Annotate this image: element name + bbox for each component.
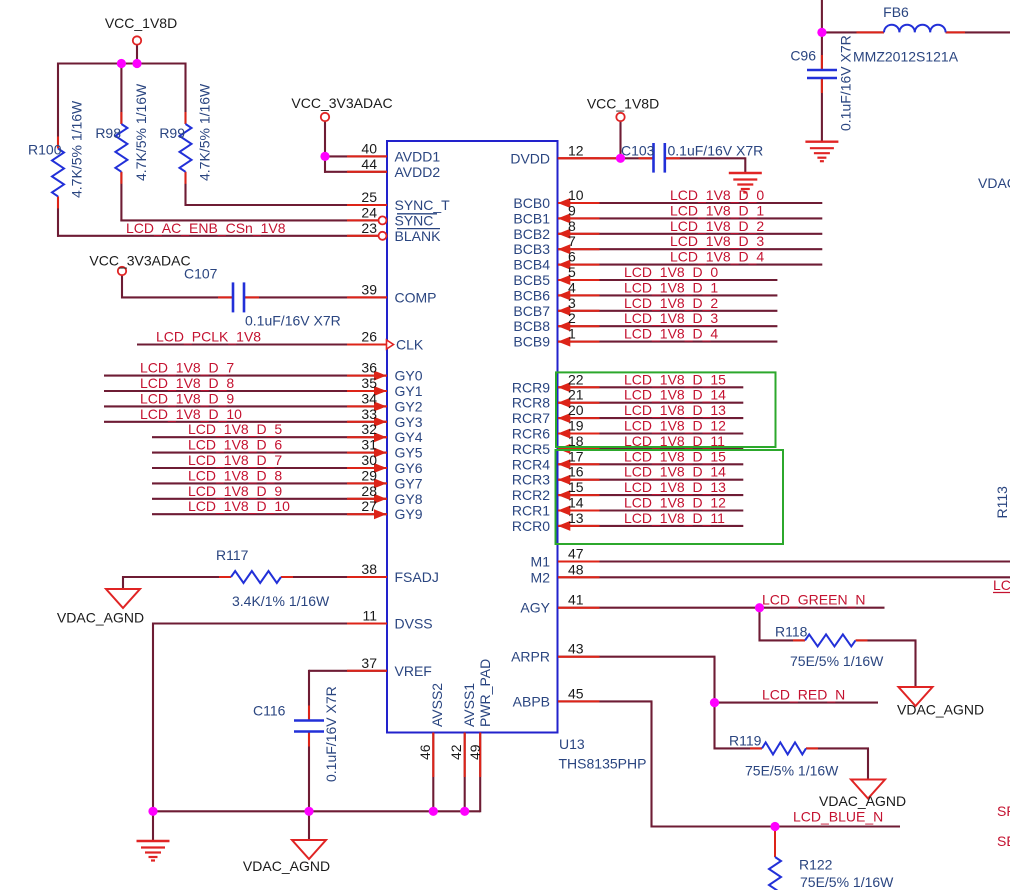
svg-text:38: 38 [361,561,377,577]
resistor R99 [180,124,192,172]
svg-text:16: 16 [568,464,584,480]
svg-text:ABPB: ABPB [513,693,550,709]
svg-text:SYNC_T: SYNC_T [395,197,451,213]
svg-text:LCD_1V8_D_10: LCD_1V8_D_10 [188,498,290,514]
wire LCD_1V8_D_2 to BCB7 [558,310,777,312]
ground VDAC_AGND below R118 [899,687,933,706]
wire LCD_1V8_D_13 to RCR7 [558,417,743,419]
wire LCD_1V8_D_9 to GY8 [152,498,387,500]
svg-text:RCR3: RCR3 [512,472,550,488]
svg-text:GY0: GY0 [395,368,423,384]
svg-text:VDAC_AGND: VDAC_AGND [897,702,984,718]
svg-text:BCB5: BCB5 [513,272,550,288]
svg-text:0.1uF/16V X7R: 0.1uF/16V X7R [668,142,764,158]
svg-text:GY8: GY8 [395,491,423,507]
wire C116 rail to VDAC_AGND [308,811,310,840]
svg-text:VDAC_AGND: VDAC_AGND [819,793,906,809]
svg-text:RCR1: RCR1 [512,503,550,519]
wire AVSS2 pin column [432,733,434,812]
lead FB6 [857,31,885,33]
svg-text:31: 31 [361,437,377,453]
svg-text:30: 30 [361,452,377,468]
green highlight box RCR4-RCR0 [556,450,784,544]
wire LCD_1V8_D_7 to GY0 [104,375,387,377]
svg-text:VDAC_AGND: VDAC_AGND [57,610,144,626]
svg-text:LCD: LCD [993,577,1010,593]
svg-text:LCD_1V8_D_12: LCD_1V8_D_12 [624,495,726,511]
svg-text:LCD_1V8_D_0: LCD_1V8_D_0 [624,264,718,280]
svg-text:LCD_1V8_D_7: LCD_1V8_D_7 [140,360,234,376]
resistor R122 [769,857,781,890]
wire VCC_1V8D rail [58,62,186,64]
svg-text:3.4K/1% 1/16W: 3.4K/1% 1/16W [232,593,330,609]
svg-text:SPI: SPI [997,803,1010,819]
svg-text:GY4: GY4 [395,429,423,445]
node AVDD1 junction [320,152,329,161]
svg-text:0.1uF/16V X7R: 0.1uF/16V X7R [838,35,854,131]
svg-text:5: 5 [568,264,576,280]
wire FSADJ to R117 [281,576,387,578]
svg-text:R118: R118 [775,624,808,640]
wire R98 top lead column [120,64,122,125]
svg-text:CLK: CLK [396,337,424,353]
capacitor C96 [807,69,837,72]
svg-text:RCR8: RCR8 [512,395,550,411]
lead R100 [57,137,59,149]
svg-text:VCC_3V3ADAC: VCC_3V3ADAC [291,95,392,111]
svg-text:LCD_1V8_D_8: LCD_1V8_D_8 [188,467,282,483]
svg-text:LCD_1V8_D_11: LCD_1V8_D_11 [624,510,725,526]
svg-text:VCC_1V8D: VCC_1V8D [587,96,659,112]
wire C103 to ground [665,157,746,159]
svg-text:AVDD1: AVDD1 [395,148,441,164]
svg-text:MMZ2012S121A: MMZ2012S121A [853,49,959,65]
lead R99 [185,112,187,124]
svg-text:BCB6: BCB6 [513,287,550,303]
svg-text:LCD_1V8_D_1: LCD_1V8_D_1 [670,202,764,218]
node rail / ground junction [148,807,157,816]
capacitor C103 [652,143,655,173]
ground below C96 [805,140,838,142]
node rail / AVSS1 junction [460,807,469,816]
wire LCD_1V8_D_7 to GY6 [152,467,387,469]
wire VCC_3V3ADAC to COMP via C107 [121,275,123,298]
wire junction to FB6 [821,31,884,33]
wire LCD_1V8_D_2 to BCB2 [558,233,822,235]
svg-text:LCD_PCLK_1V8: LCD_PCLK_1V8 [156,329,261,345]
svg-text:RCR6: RCR6 [512,426,550,442]
svg-text:BCB4: BCB4 [513,257,550,273]
svg-text:LCD_1V8_D_0: LCD_1V8_D_0 [670,187,764,203]
power symbol VCC_1V8D left [133,36,141,44]
svg-text:GY6: GY6 [395,460,423,476]
svg-text:LCD_RED_N: LCD_RED_N [762,687,845,703]
svg-text:40: 40 [361,140,377,156]
wire LCD_1V8_D_10 to GY9 [152,513,387,515]
resistor R117 [231,571,281,583]
svg-text:43: 43 [568,641,584,657]
svg-text:LCD_1V8_D_13: LCD_1V8_D_13 [624,479,726,495]
svg-text:4.7K/5% 1/16W: 4.7K/5% 1/16W [197,83,213,181]
svg-text:VCC_3V3ADAC: VCC_3V3ADAC [89,253,190,269]
wire R100 bottom to BLANK [57,196,59,236]
svg-text:DVSS: DVSS [395,616,433,632]
svg-text:VDAC_: VDAC_ [978,175,1010,191]
svg-text:GY7: GY7 [395,475,423,491]
svg-text:LCD_1V8_D_9: LCD_1V8_D_9 [188,483,282,499]
ferrite bead FB6 [884,25,946,33]
svg-text:FB6: FB6 [883,4,909,20]
svg-text:LCD_1V8_D_2: LCD_1V8_D_2 [624,295,718,311]
svg-text:BLANK: BLANK [395,228,442,244]
svg-text:LCD_BLUE_N: LCD_BLUE_N [793,809,883,825]
svg-text:8: 8 [568,218,576,234]
pin stubs left side [347,155,387,157]
ground below C103 [729,172,762,174]
wire R99 bottom to SYNC_T pin 25 [184,172,186,206]
wire PWR_PAD pin column [479,733,481,813]
svg-text:32: 32 [361,421,377,437]
svg-text:LCD_1V8_D_13: LCD_1V8_D_13 [624,402,726,418]
wire LCD_1V8_D_5 to GY4 [152,436,387,438]
wire LCD_1V8_D_14 to RCR3 [558,479,743,481]
wire LCD_PCLK_1V8 to CLK [137,343,387,345]
svg-text:47: 47 [568,546,584,562]
svg-text:BCB2: BCB2 [513,226,550,242]
svg-text:R113: R113 [994,486,1010,519]
lead R117 [219,576,231,578]
svg-text:LCD_1V8_D_4: LCD_1V8_D_4 [670,249,764,265]
svg-text:AGY: AGY [520,600,550,616]
svg-text:LCD_1V8_D_10: LCD_1V8_D_10 [140,406,242,422]
wire LCD_RED_N [715,702,879,704]
svg-text:M2: M2 [531,569,551,585]
svg-text:RCR9: RCR9 [512,379,550,395]
svg-text:33: 33 [361,406,377,422]
svg-text:34: 34 [361,390,377,406]
wire LCD_1V8_D_1 to BCB1 [558,217,822,219]
svg-text:21: 21 [568,387,584,403]
svg-text:R100: R100 [28,142,62,158]
svg-text:35: 35 [361,375,377,391]
svg-text:9: 9 [568,202,576,218]
svg-text:THS8135PHP: THS8135PHP [559,756,647,772]
wire LCD_1V8_D_12 to RCR6 [558,432,743,434]
svg-text:GY1: GY1 [395,383,423,399]
wire LCD_1V8_D_8 to GY1 [104,390,387,392]
svg-text:LCD_1V8_D_6: LCD_1V8_D_6 [188,437,282,453]
svg-text:10: 10 [568,187,584,203]
svg-text:AVDD2: AVDD2 [395,164,441,180]
svg-text:36: 36 [361,360,377,376]
svg-text:FSADJ: FSADJ [395,569,439,585]
resistor R119 [762,742,806,754]
svg-text:RCR7: RCR7 [512,410,550,426]
svg-text:AVSS1: AVSS1 [461,683,477,727]
svg-text:4: 4 [568,279,576,295]
svg-text:U13: U13 [559,736,585,752]
svg-text:27: 27 [361,498,377,514]
lead C96 [821,55,823,70]
svg-text:23: 23 [361,220,377,236]
wire LCD_1V8_D_9 to GY2 [104,405,387,407]
wire LCD_1V8_D_3 to BCB8 [558,325,777,327]
wire R117 to VDAC_AGND [122,576,231,578]
svg-text:46: 46 [417,744,433,760]
svg-text:0.1uF/16V X7R: 0.1uF/16V X7R [323,686,339,782]
svg-text:13: 13 [568,510,584,526]
power symbol VCC_1V8D right [616,113,624,121]
svg-text:41: 41 [568,592,584,608]
ground VDAC_AGND below R119 [851,780,885,799]
lead R122 [774,827,776,858]
wire LCD_1V8_D_0 to BCB5 [558,279,777,281]
wire bottom analog rail [152,810,480,812]
svg-text:RCR0: RCR0 [512,518,550,534]
svg-text:42: 42 [448,744,464,760]
wire rail to ground [152,811,154,841]
wire LCD_1V8_D_4 to BCB9 [558,341,777,343]
wire R100 top lead column [57,63,59,149]
wire AVSS1 pin column [464,733,466,812]
svg-text:LCD_1V8_D_7: LCD_1V8_D_7 [188,452,282,468]
wire R119 to VDAC_AGND [806,747,869,749]
wire ARPR down through LCD_RED_N [558,656,716,658]
wire AGY / LCD_GREEN_N [558,607,885,609]
svg-text:COMP: COMP [395,289,437,305]
svg-text:LCD_1V8_D_3: LCD_1V8_D_3 [670,233,764,249]
svg-text:LCD_1V8_D_9: LCD_1V8_D_9 [140,390,234,406]
wire R119 row [714,747,763,749]
wire FB6 top stem [821,0,823,32]
wire AGY branch to R118 [758,608,760,642]
svg-text:19: 19 [568,418,584,434]
svg-text:BCB8: BCB8 [513,318,550,334]
svg-text:15: 15 [568,479,584,495]
svg-text:12: 12 [568,142,584,158]
svg-text:25: 25 [361,189,377,205]
wire R118 to VDAC_AGND [856,639,917,641]
svg-text:C103: C103 [621,142,655,158]
power symbol VCC_3V3ADAC lower [118,267,126,275]
svg-text:LCD_AC_ENB_CSn_1V8: LCD_AC_ENB_CSn_1V8 [126,220,286,236]
wire ABPB down [558,700,653,702]
svg-text:LCD_1V8_D_2: LCD_1V8_D_2 [670,218,764,234]
svg-text:LCD_1V8_D_14: LCD_1V8_D_14 [624,464,726,480]
svg-text:LCD_GREEN_N: LCD_GREEN_N [762,592,865,608]
svg-text:BCB7: BCB7 [513,303,550,319]
svg-text:RCR2: RCR2 [512,487,550,503]
svg-text:14: 14 [568,495,584,511]
wire LCD_1V8_D_12 to RCR1 [558,509,743,511]
svg-text:26: 26 [361,329,377,345]
svg-text:RCR5: RCR5 [512,441,550,457]
svg-text:LCD_1V8_D_1: LCD_1V8_D_1 [624,279,718,295]
svg-text:GY9: GY9 [395,506,423,522]
lead R119 [750,747,762,749]
svg-text:R122: R122 [799,857,833,873]
svg-text:22: 22 [568,371,584,387]
svg-text:29: 29 [361,467,377,483]
node rail / C116 junction [304,807,313,816]
capacitor C116 [294,719,324,722]
node DVDD / C103 junction [616,154,625,163]
svg-text:BCB0: BCB0 [513,195,550,211]
svg-text:BCB9: BCB9 [513,334,550,350]
svg-text:LCD_1V8_D_3: LCD_1V8_D_3 [624,310,718,326]
svg-text:VDAC_AGND: VDAC_AGND [243,858,330,874]
node LCD_RED_N / R119 junction [710,698,719,707]
svg-text:28: 28 [361,483,377,499]
wire R98 bottom to SYNC [120,172,122,222]
lead R118 [793,639,805,641]
svg-text:37: 37 [361,655,377,671]
svg-text:75E/5% 1/16W: 75E/5% 1/16W [800,874,894,890]
power symbol VCC_3V3ADAC upper [321,113,329,121]
wire VCC_3V3ADAC to AVDD1 AVDD2 [324,121,326,173]
wire LCD_1V8_D_13 to RCR2 [558,494,743,496]
svg-text:4.7K/5% 1/16W: 4.7K/5% 1/16W [133,83,149,181]
node LCD_BLUE_N / R122 junction [770,822,779,831]
green highlight box RCR9-RCR5 [556,372,776,447]
svg-text:C116: C116 [253,703,286,719]
node LCD_GREEN_N / R118 junction [755,603,764,612]
IC U13 THS8135PHP body [387,141,558,733]
node VCC_1V8D rail / R98 junction [117,59,126,68]
svg-text:20: 20 [568,402,584,418]
wire LCD_1V8_D_15 to RCR4 [558,463,743,465]
svg-text:LCD_1V8_D_15: LCD_1V8_D_15 [624,371,726,387]
wire LCD_1V8_D_11 to RCR5 [558,448,743,450]
wire LCD_1V8_D_11 to RCR0 [558,525,743,527]
svg-text:6: 6 [568,249,576,265]
ground bottom left [137,840,170,842]
ground VDAC_AGND below C116 [292,840,326,859]
svg-text:LCD_1V8_D_5: LCD_1V8_D_5 [188,421,282,437]
svg-text:11: 11 [362,608,377,624]
node rail / AVSS2 junction [429,807,438,816]
svg-text:0.1uF/16V X7R: 0.1uF/16V X7R [245,313,341,329]
svg-text:GY5: GY5 [395,445,423,461]
svg-text:R117: R117 [216,547,249,563]
svg-text:GY2: GY2 [395,398,423,414]
wire C96 column [821,32,823,70]
svg-text:AVSS2: AVSS2 [429,683,445,727]
svg-text:1: 1 [568,326,576,342]
ground VDAC_AGND below R117 [106,589,140,608]
wire LCD_1V8_D_10 to GY3 [104,421,387,423]
svg-text:39: 39 [361,281,377,297]
wire R99 top lead column [184,63,186,125]
wire LCD_1V8_D_8 to GY7 [152,482,387,484]
svg-text:RCR4: RCR4 [512,456,550,472]
svg-text:M1: M1 [531,554,551,570]
svg-text:49: 49 [467,744,483,760]
wire DVDD to C103 [558,157,654,159]
svg-text:VREF: VREF [395,663,432,679]
wire LCD_BLUE_N [651,825,901,827]
wire LCD_1V8_D_14 to RCR8 [558,402,743,404]
node VCC_1V8D rail stem junction [132,59,141,68]
resistor R100 [52,149,64,197]
lead C103 [639,157,654,159]
pin stubs right side [558,157,600,159]
svg-text:BCB3: BCB3 [513,241,550,257]
svg-text:BCB1: BCB1 [513,210,550,226]
wire LCD_1V8_D_1 to BCB6 [558,294,777,296]
wire LCD_1V8_D_15 to RCR9 [558,386,743,388]
pin stubs bottom AVSS2 AVSS1 PWR_PAD [432,733,434,778]
svg-text:DVDD: DVDD [510,150,550,166]
svg-text:2: 2 [568,310,576,326]
lead C116 [308,706,310,721]
svg-text:75E/5% 1/16W: 75E/5% 1/16W [745,763,839,779]
wire M1 [558,560,1010,562]
svg-text:GY3: GY3 [395,414,423,430]
resistor R98 [115,124,127,172]
svg-text:3: 3 [568,295,576,311]
svg-text:PWR_PAD: PWR_PAD [477,659,493,727]
wire VCC_1V8D stem [136,45,138,64]
svg-text:SYNC: SYNC [395,212,434,228]
svg-text:LCD_1V8_D_8: LCD_1V8_D_8 [140,375,234,391]
svg-text:45: 45 [568,685,584,701]
svg-text:4.7K/5% 1/16W: 4.7K/5% 1/16W [69,100,85,198]
svg-text:R98: R98 [95,125,121,141]
svg-text:44: 44 [361,156,377,172]
svg-text:SEL: SEL [997,833,1010,849]
wire DVSS down to analog ground rail [153,622,387,624]
lead R98 [120,112,122,124]
svg-text:C96: C96 [790,48,816,64]
node FB6 / C96 junction [817,28,826,37]
svg-text:LCD_1V8_D_14: LCD_1V8_D_14 [624,387,726,403]
wire LCD_1V8_D_6 to GY5 [152,452,387,454]
svg-text:VCC_1V8D: VCC_1V8D [105,15,177,31]
resistor R118 [805,634,856,646]
wire VREF to C116 [309,670,387,672]
svg-text:LCD_1V8_D_4: LCD_1V8_D_4 [624,326,718,342]
svg-text:R119: R119 [729,732,762,748]
svg-text:LCD_1V8_D_12: LCD_1V8_D_12 [624,418,726,434]
svg-text:7: 7 [568,233,576,249]
wire FB6 to right edge [946,31,1010,33]
svg-text:R99: R99 [159,125,185,141]
svg-text:75E/5% 1/16W: 75E/5% 1/16W [790,653,884,669]
svg-text:ARPR: ARPR [511,649,550,665]
wire VCC_1V8D stem to DVDD [619,121,621,158]
wire LCD_1V8_D_0 to BCB0 [558,202,822,204]
capacitor C107 [232,282,235,312]
svg-text:24: 24 [361,204,377,220]
wire C116 bottom to rail [308,732,310,813]
wire M2 [558,576,1010,578]
pin stub DVDD red to junction [558,157,621,159]
wire LCD_1V8_D_4 to BCB4 [558,264,822,266]
lead C107 [218,296,233,298]
svg-text:48: 48 [568,561,584,577]
wire LCD_1V8_D_3 to BCB3 [558,248,822,250]
